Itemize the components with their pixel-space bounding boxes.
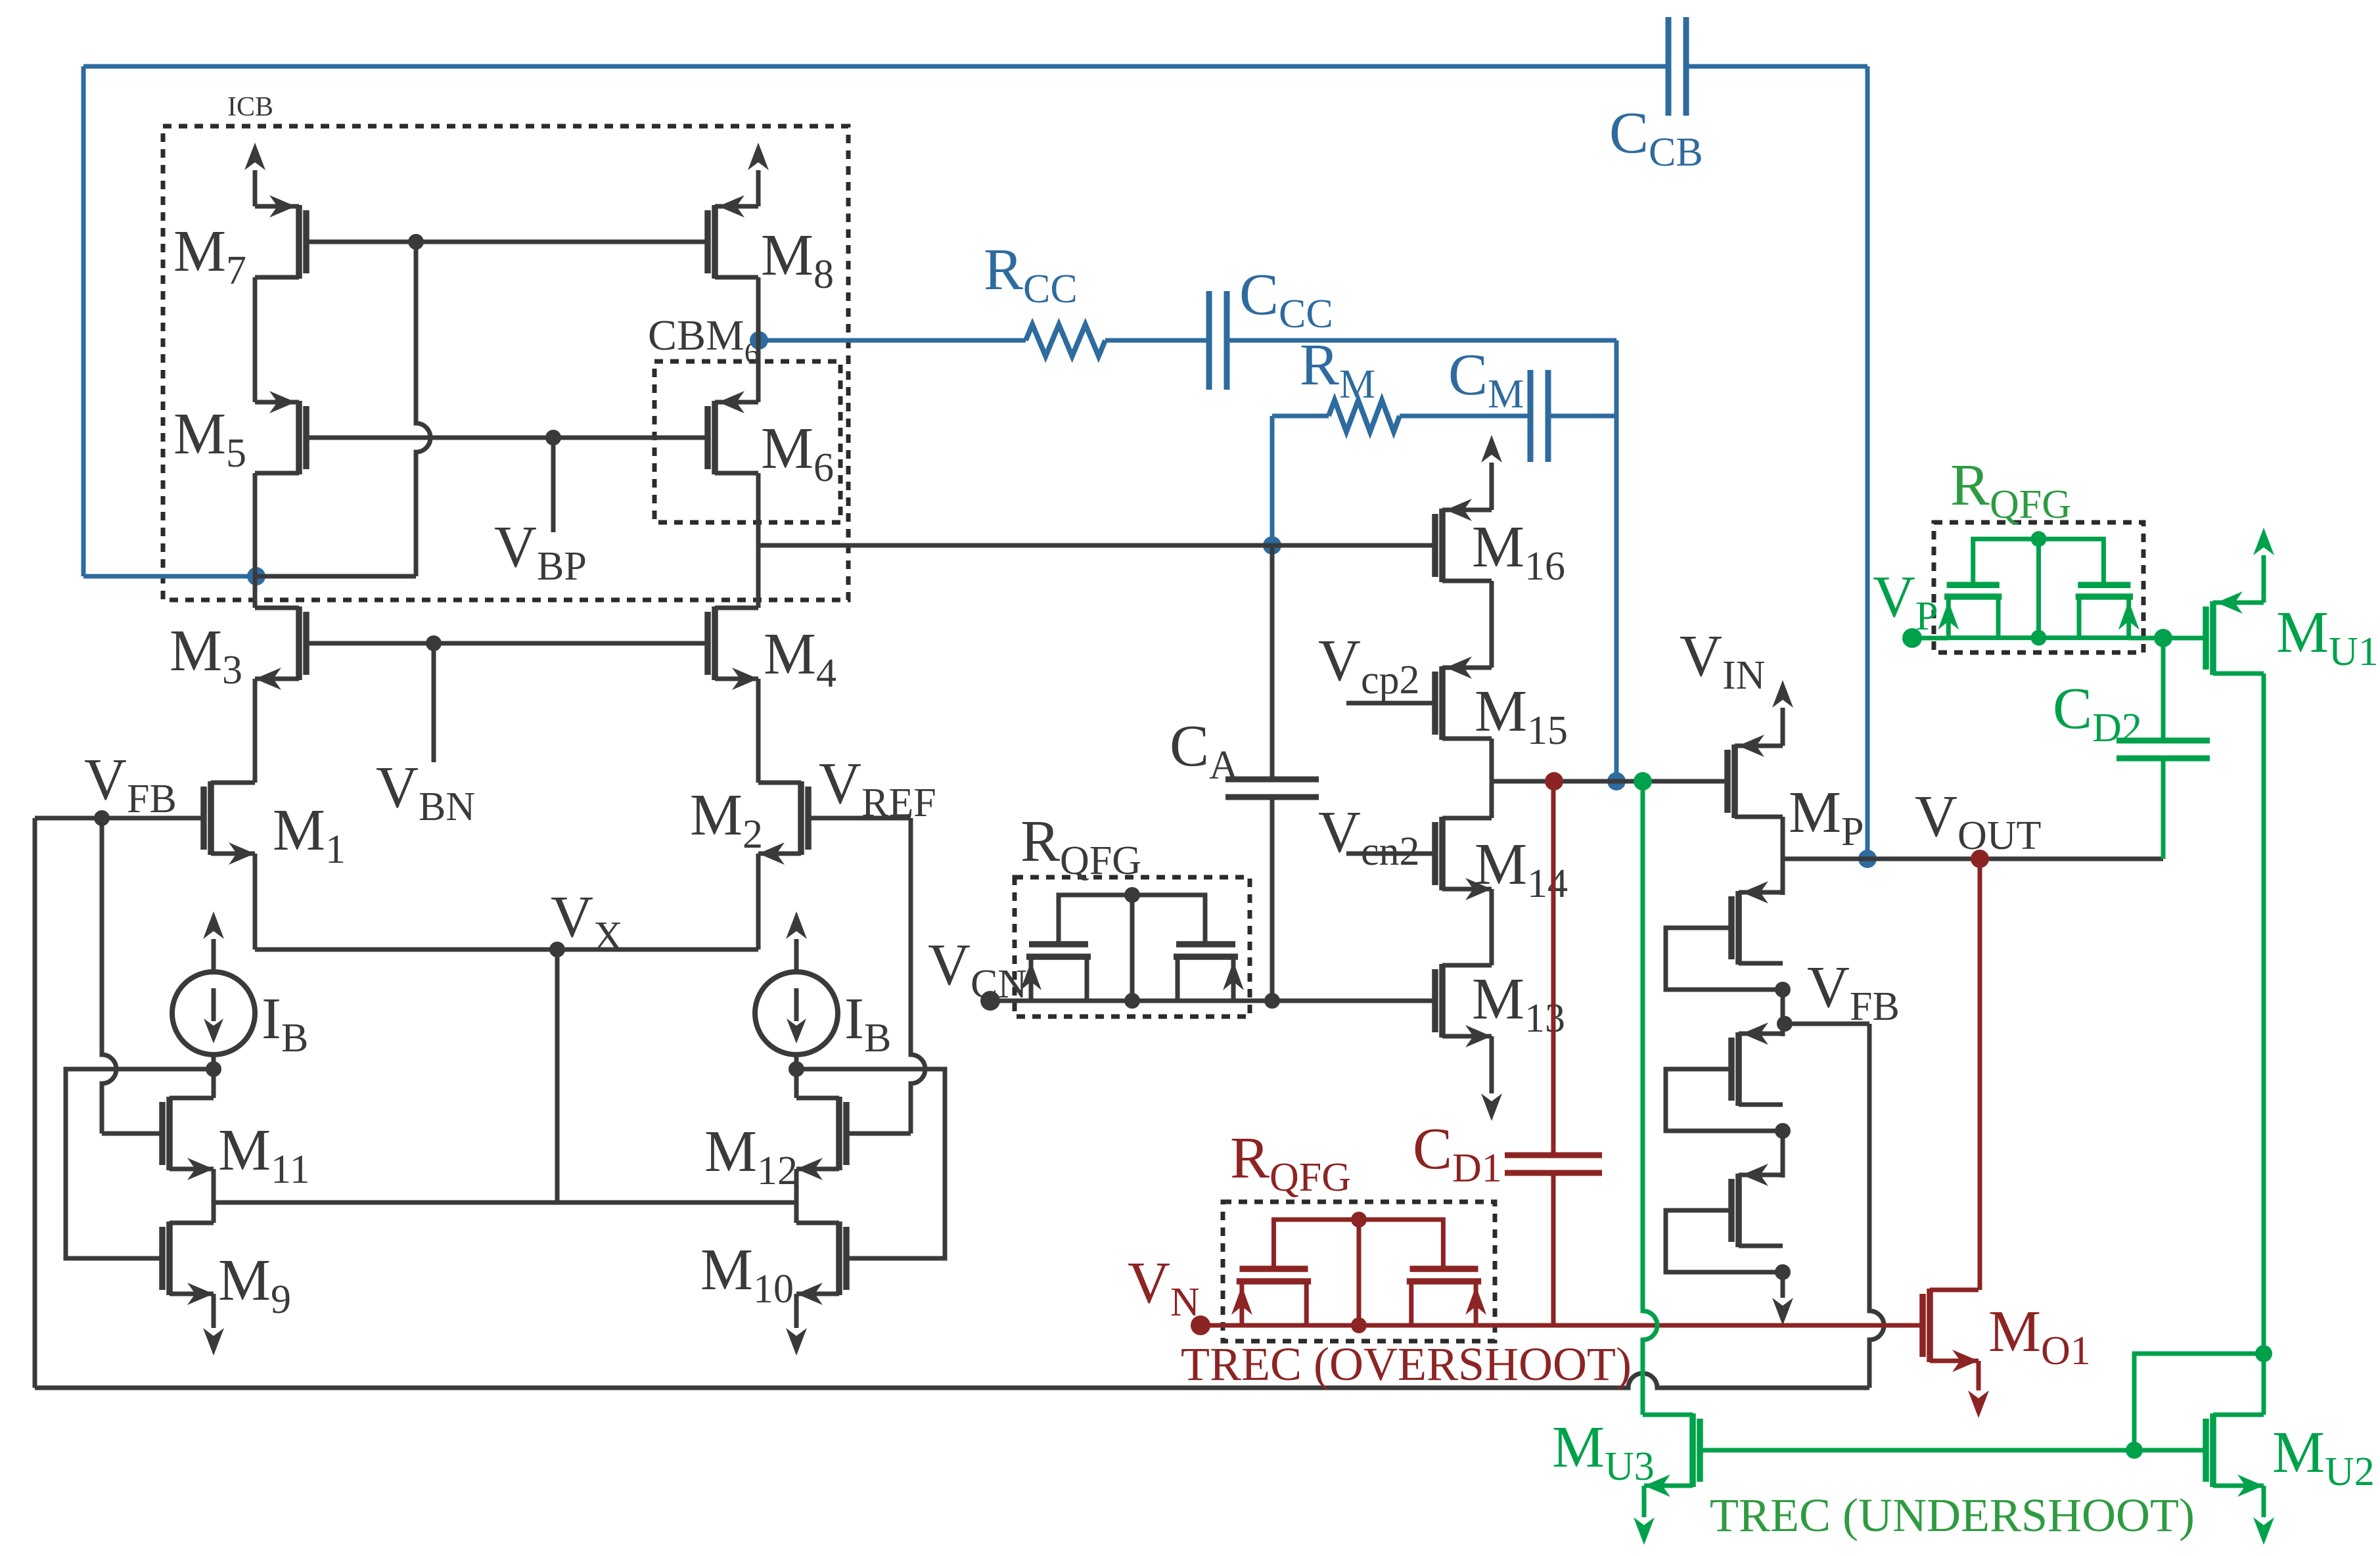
wire M2 source down to VX rail	[756, 854, 761, 950]
node below IB right	[789, 1061, 804, 1077]
wire second stage gate node row to MP gate	[1492, 779, 1726, 784]
transistor M1 (NMOS input)	[200, 787, 207, 850]
wire CA branch vertical upper	[1270, 545, 1275, 779]
node VBP	[545, 430, 561, 446]
resistor RQFG-CN QFG pseudo-resistor transistors	[1026, 895, 1238, 1001]
supply arrow VIN above MP	[1781, 708, 1785, 746]
resistor RQFG-P QFG dashed box	[1934, 522, 2143, 652]
capacitor CD2	[2117, 738, 2210, 744]
node diode connection FB1	[1775, 982, 1791, 997]
node below IB left	[206, 1061, 221, 1077]
node VOUT dark red dot	[1971, 850, 1989, 868]
ground arrow below MO1	[1977, 1361, 1981, 1390]
dashed box ICB (current buffer)	[163, 126, 848, 600]
wire VBN stub	[432, 643, 436, 762]
supply arrow above MU1	[2262, 555, 2266, 603]
transistor MU1 (PMOS undershoot)	[2203, 606, 2209, 670]
wire gate rail down to node A with hop over M5 gate rail	[416, 242, 430, 576]
transistor M10 (NMOS)	[843, 1227, 850, 1290]
wire M6 drain down to M4 drain	[756, 473, 761, 608]
node on M7-M8 gate rail	[408, 234, 424, 250]
node MP gate blue dot	[1607, 772, 1626, 790]
transistor M4 (NMOS cascode)	[704, 612, 711, 675]
wire IB right bottom to node	[794, 1055, 799, 1098]
wire tail rail M11 source to M12 drain	[214, 1201, 796, 1205]
transistor feedback diode PMOS FB1	[1728, 896, 1735, 959]
resistor RQFG-N QFG pseudo-resistor transistors	[1237, 1220, 1481, 1325]
ground arrow below M10	[794, 1294, 799, 1328]
wire M5-M6 gate rail (VBP)	[308, 436, 706, 440]
wire CD1 branch vertical	[1551, 781, 1556, 1155]
node VP terminal	[1902, 628, 1922, 648]
wire M11 source to tail rail to M9 drain	[212, 1169, 216, 1223]
node CBM6 blue dot	[750, 331, 768, 350]
wire MU2 drain up	[2262, 1354, 2266, 1415]
wire VX down to tail rail	[555, 950, 560, 1202]
wire M7-M8 gate rail	[308, 240, 706, 244]
wire blue left vertical down to VBP node	[81, 66, 86, 576]
node dark red on MP gate row	[1545, 772, 1563, 790]
transistor M12 (NMOS)	[843, 1102, 850, 1165]
wire RM to CM	[1400, 414, 1530, 419]
ground arrow below FB3	[1781, 1266, 1785, 1298]
node blue dot on M16 gate rail	[1263, 536, 1281, 555]
wire M2 gate to VREF branch with hop, down to M12 gate	[810, 816, 911, 821]
wire M8 drain to CBM6 node to M6 source	[756, 277, 761, 402]
transistor feedback diode PMOS FB2	[1728, 1038, 1735, 1101]
transistor M2 (NMOS input)	[805, 787, 812, 850]
wire green vertical MP gate to MU3 drain with hops	[1643, 781, 1657, 1415]
wire CCC to blue right branch vertical	[1227, 338, 1616, 343]
svg-text:ICB: ICB	[227, 92, 273, 122]
wire MU1 drain down to MU2 drain node	[2262, 674, 2266, 1354]
transistor M15 (PMOS cascode)	[1432, 672, 1438, 735]
resistor RQFG-P QFG pseudo-resistor transistors	[1944, 539, 2133, 637]
transistor M6 (PMOS, CBM6)	[704, 406, 711, 469]
wire MU2 diode connection loop	[2134, 1354, 2264, 1450]
transistor MU3 (NMOS undershoot sense)	[1697, 1419, 1703, 1482]
wire M10 gate diode loop from IB-right node	[796, 1069, 945, 1258]
transistor M3 (NMOS cascode)	[303, 612, 309, 675]
wire M16 drain to M15 source	[1490, 581, 1494, 668]
wire VCN into QFG	[990, 999, 1031, 1003]
capacitor CD1	[1505, 1153, 1602, 1158]
wire blue top rail from M7 source column to CCB	[83, 64, 1668, 69]
transistor M5 (PMOS)	[303, 406, 309, 469]
wire overshoot QFG rail to MO1 gate	[1476, 1323, 1921, 1328]
capacitor CCC	[1206, 291, 1212, 390]
wire VP into QFG	[1912, 636, 1948, 641]
transistor MP (PMOS power)	[1724, 750, 1731, 813]
wire blue branch vertical to MP gate node	[1614, 340, 1619, 781]
wire blue CBM6 node to RCC	[759, 338, 1026, 343]
capacitor CM	[1528, 370, 1534, 462]
wire M6 drain rail to M16 gate	[758, 543, 1434, 548]
transistor MU2 (NMOS undershoot)	[2203, 1419, 2209, 1482]
wire QFG to MU1 gate	[2129, 636, 2205, 641]
capacitor CCB	[1666, 17, 1672, 116]
supply arrow above M16	[1490, 463, 1494, 510]
wire CD2 to VOUT	[2161, 759, 2166, 859]
node VFB	[94, 810, 110, 826]
ground arrow below M13	[1490, 1036, 1494, 1093]
wire VFB feedback long branch: left vertical, bottom rail with hop, right vertical with hop	[33, 818, 37, 1388]
resistor RQFG-CN QFG dashed box	[1015, 877, 1250, 1017]
node CA-QFG junction	[1264, 993, 1280, 1009]
wire IB left bottom to node	[212, 1055, 216, 1098]
wire to RM	[1272, 414, 1329, 419]
node VCN terminal	[980, 991, 1000, 1011]
capacitor CA	[1225, 777, 1319, 783]
wire blue into node A (M5 drain / M3 drain)	[83, 574, 256, 579]
resistor RQFG-N QFG dashed box	[1223, 1202, 1495, 1341]
resistor RCC	[1026, 325, 1105, 356]
wire M3-M4 gate rail (VBN)	[308, 641, 706, 646]
transistor M14 (NMOS cascode)	[1432, 822, 1438, 885]
ground arrow below MU2	[2262, 1486, 2266, 1517]
wire M9 gate diode loop to IB-left node	[66, 1069, 214, 1258]
wire gate loop feedback FB3	[1666, 1210, 1783, 1272]
wire M4 source to M2 drain	[756, 679, 761, 783]
wire M3 source to M1 drain	[253, 679, 258, 783]
current source IB left	[172, 972, 255, 1055]
node VX	[549, 942, 565, 957]
wire CD2 branch vertical upper	[2161, 638, 2166, 740]
wire VOUT rail	[1783, 857, 2163, 861]
wire VN into QFG	[1201, 1323, 1242, 1328]
wire MU3 drain lead	[1643, 1413, 1693, 1417]
wire M7 drain to M5 source	[253, 277, 258, 402]
wire blue CCB to right corner	[1686, 64, 1867, 69]
node diode connection FB3	[1775, 1264, 1791, 1280]
wire VFB node down to M11 gate with hop	[102, 818, 116, 1133]
node VBN	[426, 635, 442, 651]
svg-text:TREC (UNDERSHOOT): TREC (UNDERSHOOT)	[1710, 1489, 2195, 1542]
node on MU2/MU3 gate rail	[2126, 1442, 2143, 1459]
resistor RM	[1329, 400, 1400, 432]
wire VOUT to FB1	[1781, 859, 1785, 895]
wire gate loop feedback FB1	[1666, 928, 1783, 990]
wire M15 drain through gate node row to M14 drain	[1490, 739, 1494, 818]
wire VBP stub	[551, 438, 556, 532]
wire MP drain to VOUT	[1781, 817, 1785, 859]
wire RCC to CCC	[1105, 338, 1209, 343]
wire Vcn2 gate stub	[1346, 852, 1434, 856]
transistor M16 (PMOS)	[1432, 514, 1438, 577]
wire VFB to M1 gate	[35, 816, 202, 821]
dashed box CBM6	[654, 361, 840, 522]
wire M5 drain to node A	[253, 473, 258, 576]
ground arrow below M9	[212, 1294, 216, 1328]
transistor MO1 (NMOS overshoot clamp)	[1919, 1294, 1926, 1357]
node CD2 junction	[2154, 629, 2172, 647]
node diode connection FB2	[1775, 1123, 1791, 1139]
svg-text:TREC (OVERSHOOT): TREC (OVERSHOOT)	[1181, 1338, 1632, 1390]
transistor feedback diode PMOS FB3	[1728, 1179, 1735, 1242]
wire VOUT down to MO1 drain	[1978, 859, 1982, 1290]
node A blue dot	[247, 567, 265, 585]
wire QFG to M13 gate	[1233, 999, 1434, 1003]
wire VX rail	[255, 948, 758, 952]
ground arrow below MU3	[1642, 1486, 1647, 1517]
wire M1 source down to VX rail	[253, 854, 258, 950]
node VN terminal	[1191, 1316, 1210, 1335]
node VOUT blue dot	[1858, 850, 1877, 868]
wire M14 source to M13 drain	[1490, 889, 1494, 965]
wire FB2 to FB3	[1781, 1131, 1785, 1178]
transistor M13 (NMOS)	[1432, 969, 1438, 1032]
wire blue RM branch vertical	[1270, 416, 1275, 545]
wire M12 source to tail rail to M10 drain	[794, 1169, 799, 1223]
transistor M9 (NMOS)	[159, 1227, 166, 1290]
supply arrow above M8	[756, 170, 761, 206]
wire gate loop feedback FB2	[1666, 1069, 1783, 1131]
wire Vcp2 gate stub	[1346, 701, 1434, 706]
wire blue right vertical down to VOUT	[1865, 66, 1870, 859]
wire CM to blue branch vertical	[1548, 414, 1616, 419]
current source IB right	[755, 972, 838, 1055]
wire CD1 to overshoot rail	[1551, 1173, 1556, 1325]
wire node A to M3 drain	[253, 576, 258, 608]
transistor M8 (PMOS)	[704, 210, 711, 273]
node VFB tap	[1777, 1016, 1793, 1032]
supply arrow above M7	[253, 170, 258, 206]
transistor M7 (PMOS)	[303, 210, 309, 273]
transistor M11 (NMOS)	[159, 1102, 166, 1165]
wire CA to VCN node rail	[1270, 797, 1275, 1001]
node MU2 drain-gate connection	[2255, 1345, 2272, 1362]
node green on MP gate row	[1634, 772, 1652, 790]
wire FB1 to FB2 with VFB tap	[1781, 990, 1785, 1036]
wire MU3-MU2 gate rail	[1701, 1448, 2205, 1453]
